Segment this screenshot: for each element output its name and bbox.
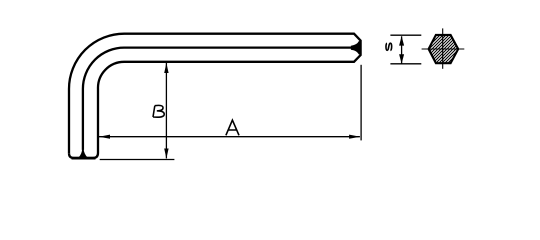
hex key body outline — [69, 34, 361, 154]
dimension line A — [99, 136, 360, 138]
right tip chamfer fork — [352, 41, 360, 54]
extension line s bottom — [390, 63, 421, 65]
hexagon outline — [429, 35, 459, 63]
arrow A right — [349, 135, 360, 139]
label B — [153, 105, 164, 117]
dimension line s — [401, 36, 403, 63]
hexagon horizontal centerline — [422, 48, 465, 50]
arrow A left — [99, 135, 110, 139]
extension line bottom of B — [100, 159, 175, 161]
hex key bottom tip fillets — [69, 153, 98, 158]
hatching — [398, 22, 507, 68]
arrow s up — [399, 36, 404, 46]
label A — [226, 120, 239, 135]
hexagon vertical centerline — [442, 28, 444, 68]
bottom tip chamfer fork — [80, 150, 87, 158]
label s (rotated) — [386, 43, 392, 50]
arrow s down — [399, 54, 404, 64]
arrow B top — [164, 63, 168, 73]
extension line s top — [390, 34, 421, 36]
extension line right of A — [360, 65, 362, 141]
hex key middle ridge line — [83, 48, 353, 150]
arrow B bottom — [164, 149, 168, 159]
dimension line B — [165, 63, 167, 158]
